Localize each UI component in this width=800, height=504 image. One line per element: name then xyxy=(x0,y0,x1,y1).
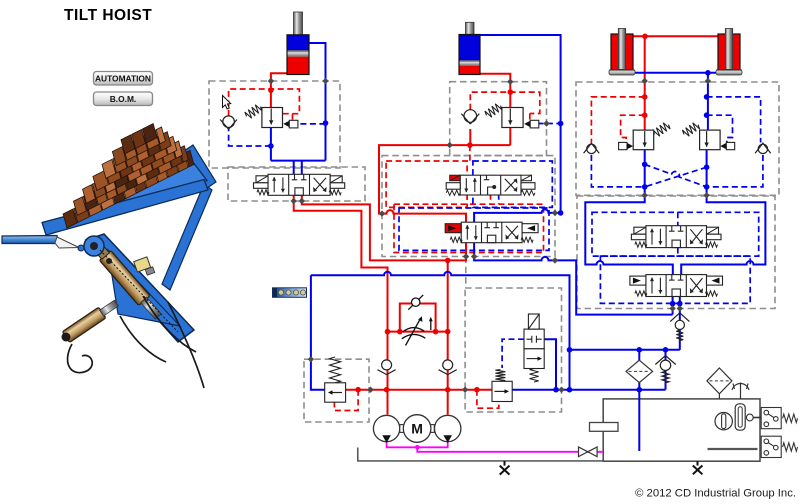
counterbalance valve CB1 xyxy=(244,103,263,120)
long return line xyxy=(311,272,570,390)
relief valve RV1 enclosure xyxy=(304,359,369,422)
button AUTOMATION xyxy=(94,72,153,86)
wire C2 rod side down xyxy=(480,35,561,213)
2/2 valve out xyxy=(544,339,556,390)
pivot hub xyxy=(84,236,104,256)
check valve CV1 xyxy=(220,116,237,129)
electric motor M xyxy=(400,425,404,433)
directional valve V4 xyxy=(646,226,707,248)
svg-text:© 2012 CD Industrial Group Inc: © 2012 CD Industrial Group Inc. xyxy=(635,488,796,500)
wire V2 out to group4 xyxy=(474,243,672,315)
level gauge xyxy=(735,404,745,430)
suction strainer stub xyxy=(590,423,619,432)
counterbalance group 1 enclosure xyxy=(209,81,340,168)
RV2 vent dashed xyxy=(477,390,499,409)
group3 crossing pilot lines xyxy=(645,164,707,187)
wire V1 top rail xyxy=(271,160,326,162)
unloader valve enclosure xyxy=(465,288,561,412)
flow control valve xyxy=(402,295,433,346)
temp sensor xyxy=(746,414,753,421)
junction dots red xyxy=(268,34,648,393)
svg-text:AUTOMATION: AUTOMATION xyxy=(95,73,151,83)
case drain pump1 xyxy=(387,440,418,447)
CB1 drain dashed to check valve xyxy=(229,129,271,147)
wire CV2 to rail xyxy=(469,129,471,145)
wire C2 cap to CB2 xyxy=(480,74,510,108)
cylinder C2 xyxy=(459,22,480,74)
CB3 pilot box xyxy=(619,142,627,149)
level switch 1 xyxy=(761,408,797,429)
flow control loop xyxy=(400,304,436,332)
button B.O.M. xyxy=(94,92,153,106)
wire C1 cap to CB1 xyxy=(271,73,287,107)
check valve CV4 xyxy=(755,143,771,153)
CB1 pilot box xyxy=(283,121,289,127)
mouse cursor xyxy=(223,96,231,110)
pilot check column xyxy=(679,297,681,350)
pilot dashed box CB1 xyxy=(229,89,300,116)
blue dashed box group4 lower xyxy=(600,256,750,303)
2/2 valve pilot dashed xyxy=(502,339,524,368)
directional valve V3 xyxy=(460,175,521,195)
group3 cross drain dashed left xyxy=(591,155,644,187)
counterbalance valve CB2 xyxy=(484,102,503,119)
rod bar down to CB4 xyxy=(707,73,709,130)
return filter xyxy=(626,360,653,382)
CB1 pilot dashed xyxy=(300,123,325,125)
tank top filter xyxy=(707,368,732,399)
small cylinder xyxy=(62,298,120,343)
blue dashed box middle upper xyxy=(473,161,552,207)
conveyor arm left xyxy=(2,236,84,252)
return branch to RV1 xyxy=(311,275,325,389)
svg-text:TILT HOIST: TILT HOIST xyxy=(64,7,152,24)
counterbalance valve CB4 xyxy=(681,121,700,138)
filter top rail xyxy=(570,349,680,351)
cylinder C3 xyxy=(609,29,635,76)
directional valve V1 xyxy=(268,174,330,195)
counterbalance group 2 enclosure xyxy=(450,82,547,156)
svg-text:B.O.M.: B.O.M. xyxy=(110,94,137,104)
wire V1 port B to manifold xyxy=(302,195,466,260)
drip tray line xyxy=(358,448,603,461)
red dashed box middle upper xyxy=(386,161,467,207)
cylinder C4 xyxy=(716,29,742,76)
group4 right rail xyxy=(681,150,765,275)
blue dashed box middle lower xyxy=(399,208,549,250)
pump check valve 2 xyxy=(439,360,457,375)
wire cylinder C3-C4 cap bar xyxy=(633,35,722,37)
main lift cylinder xyxy=(93,244,163,322)
test point block xyxy=(273,288,307,298)
boundary crossing diamonds xyxy=(268,78,711,393)
connector gray dashed xyxy=(465,257,467,289)
CB4 pilot box xyxy=(720,143,726,149)
wire C3-C4 rod bar xyxy=(633,72,722,74)
CB2 pilot dashed xyxy=(537,123,560,125)
relief valve RV2 xyxy=(495,370,505,382)
wire CB2 out xyxy=(509,127,511,145)
chain detail on mast xyxy=(100,250,178,332)
level switch 2 xyxy=(761,436,797,457)
red dashed box middle lower xyxy=(394,204,544,252)
pilot-operated check xyxy=(670,313,689,341)
gusset plate xyxy=(108,250,180,326)
svg-text:M: M xyxy=(411,421,423,437)
counterbalance group 3 enclosure xyxy=(576,82,779,195)
hoses xyxy=(68,296,204,388)
drain to tank xyxy=(417,447,603,452)
baffle xyxy=(708,448,758,450)
wire V1 port A to pump1 column xyxy=(294,195,388,414)
pressure manifold xyxy=(346,389,492,391)
relief valve RV1 xyxy=(330,357,341,383)
middle valve pair enclosure xyxy=(382,156,555,257)
directional valve V2 xyxy=(461,222,522,243)
filter bypass check xyxy=(655,356,675,383)
blue dashed box group4 upper xyxy=(592,212,759,256)
backrest brace xyxy=(162,184,212,290)
RV1 vent dashed xyxy=(334,390,358,411)
tank header line xyxy=(512,389,665,391)
wire C1 rod side down xyxy=(309,43,326,161)
deck bar xyxy=(50,164,207,235)
group4 left rail xyxy=(585,150,673,275)
pump P1 xyxy=(373,415,399,441)
CB2 pilot box xyxy=(524,121,530,127)
check valve CV2 xyxy=(461,110,479,124)
wire V5 left port down xyxy=(672,297,674,315)
V3 pilot stub xyxy=(490,194,492,204)
wire supply rail to V2 xyxy=(379,145,510,222)
cylinder C1 xyxy=(287,12,309,75)
check valve CV3 xyxy=(584,143,600,153)
case drain pump2 xyxy=(417,440,447,447)
pump P2 xyxy=(435,415,461,441)
magenta junction dot xyxy=(415,445,420,450)
V4 pilot stubs xyxy=(677,212,679,225)
valve pair group 4 enclosure xyxy=(577,196,775,309)
sight glass dial xyxy=(715,413,732,430)
V3 pilot stub right xyxy=(498,194,500,204)
drain point X right xyxy=(693,461,703,474)
wire cap bar down to CB3 xyxy=(644,36,646,130)
suction into tank xyxy=(638,350,640,451)
group3 left pilot dashed xyxy=(591,97,644,143)
group3 right pilot dashed xyxy=(707,97,761,143)
pump check valve 1 xyxy=(378,360,396,375)
wire CB1 out xyxy=(270,128,272,161)
drain point X left xyxy=(500,461,510,475)
wire to V2 port xyxy=(474,209,560,222)
mast beam xyxy=(86,234,194,342)
backrest bar xyxy=(184,145,216,188)
tank/reservoir xyxy=(603,399,760,461)
junction dots blue xyxy=(268,70,711,393)
directional valve V1 enclosure xyxy=(228,167,365,201)
pilot drop to valve group xyxy=(469,145,471,161)
solenoid vent valve 2/2 xyxy=(524,314,544,369)
bypass check column xyxy=(665,350,667,390)
shutoff ball valve xyxy=(579,447,598,457)
pilot dashed box CB2 xyxy=(470,92,540,113)
directional valve V5 xyxy=(646,275,707,297)
counterbalance valve CB3 xyxy=(652,121,671,138)
lumber stack xyxy=(63,124,194,228)
group3 cross drain dashed right xyxy=(707,155,763,187)
breather xyxy=(732,383,749,399)
wire junction down to pump2 column xyxy=(447,260,449,414)
machine illustration: tilt hoist with lumber xyxy=(2,124,216,388)
yellow valve block xyxy=(134,257,151,272)
